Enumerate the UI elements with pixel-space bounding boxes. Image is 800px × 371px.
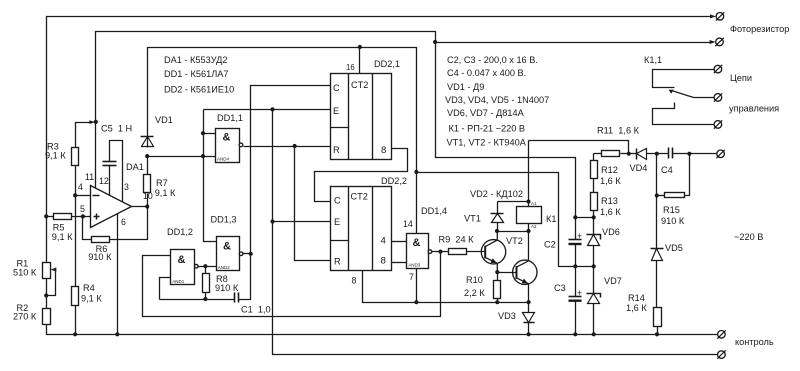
- svg-text:К1 - РП-21 ~220 В: К1 - РП-21 ~220 В: [449, 124, 526, 134]
- svg-text:C1 1,0: C1 1,0: [241, 305, 271, 315]
- svg-text:9,1 К: 9,1 К: [52, 232, 73, 242]
- svg-text:910 К: 910 К: [88, 252, 112, 262]
- svg-text:A2: A2: [531, 224, 537, 229]
- svg-text:VD6: VD6: [602, 227, 620, 237]
- svg-text:VD4: VD4: [630, 163, 648, 173]
- svg-text:VT1: VT1: [464, 214, 481, 224]
- svg-text:AND2: AND2: [218, 265, 231, 270]
- svg-text:К1: К1: [546, 214, 556, 224]
- svg-text:4: 4: [78, 182, 83, 192]
- svg-text:VT2: VT2: [506, 236, 523, 246]
- svg-text:C2: C2: [544, 240, 556, 250]
- svg-text:контроль: контроль: [735, 337, 774, 347]
- svg-text:Цепи: Цепи: [730, 73, 752, 83]
- svg-text:1,6 К: 1,6 К: [600, 207, 621, 217]
- svg-text:AND1: AND1: [172, 279, 185, 284]
- svg-text:VD1 - Д9: VD1 - Д9: [447, 82, 484, 92]
- svg-text:+: +: [577, 288, 582, 298]
- svg-text:910 К: 910 К: [215, 283, 239, 293]
- svg-text:8: 8: [381, 145, 386, 156]
- svg-text:CT2: CT2: [351, 192, 368, 202]
- svg-text:~220 В: ~220 В: [734, 232, 763, 242]
- svg-text:DD1,2: DD1,2: [167, 227, 193, 237]
- svg-text:VD7: VD7: [604, 276, 622, 286]
- svg-text:+: +: [577, 231, 582, 241]
- svg-text:C3: C3: [554, 283, 566, 293]
- svg-text:510 К: 510 К: [13, 268, 37, 278]
- svg-text:2,2 К: 2,2 К: [464, 288, 485, 298]
- svg-text:R15: R15: [663, 205, 680, 215]
- svg-text:DA1: DA1: [126, 162, 144, 172]
- svg-text:C4: C4: [661, 165, 673, 175]
- svg-text:DD1,4: DD1,4: [421, 206, 447, 216]
- svg-text:14: 14: [403, 219, 413, 229]
- svg-text:R12: R12: [601, 165, 618, 175]
- svg-text:270 К: 270 К: [13, 312, 37, 322]
- svg-text:A1: A1: [531, 201, 537, 206]
- svg-text:C: C: [333, 83, 340, 93]
- svg-text:DD2 - К561ИЕ10: DD2 - К561ИЕ10: [164, 85, 234, 95]
- svg-text:R5: R5: [53, 223, 65, 233]
- svg-text:8: 8: [352, 276, 357, 286]
- svg-text:R7: R7: [156, 178, 168, 188]
- svg-text:R9 24 К: R9 24 К: [439, 235, 475, 245]
- svg-text:DD2,1: DD2,1: [374, 59, 400, 69]
- svg-text:VD1: VD1: [155, 115, 173, 125]
- svg-text:DD1 - К561ЛА7: DD1 - К561ЛА7: [164, 69, 229, 79]
- svg-text:&: &: [223, 241, 231, 253]
- svg-text:C: C: [334, 196, 341, 206]
- svg-text:R: R: [334, 257, 341, 267]
- svg-text:16: 16: [346, 63, 355, 72]
- svg-text:&: &: [413, 237, 421, 249]
- svg-text:9,1 К: 9,1 К: [45, 151, 66, 161]
- svg-text:VD2 - КД102: VD2 - КД102: [470, 189, 523, 199]
- svg-text:управления: управления: [729, 104, 779, 114]
- svg-text:R: R: [333, 145, 340, 155]
- svg-text:R10: R10: [466, 275, 483, 285]
- svg-text:C2, C3 - 200,0 x 16 В.: C2, C3 - 200,0 x 16 В.: [447, 55, 538, 65]
- svg-text:10: 10: [143, 191, 153, 201]
- svg-text:R14: R14: [628, 293, 645, 303]
- svg-text:E: E: [333, 106, 339, 116]
- svg-text:R13: R13: [601, 196, 618, 206]
- svg-text:8: 8: [381, 256, 386, 267]
- svg-text:3: 3: [124, 182, 129, 192]
- svg-text:9,1 К: 9,1 К: [155, 188, 176, 198]
- svg-text:VT1, VT2 - КТ940А: VT1, VT2 - КТ940А: [447, 138, 527, 148]
- svg-text:5: 5: [80, 204, 85, 214]
- svg-text:4: 4: [381, 236, 387, 247]
- svg-text:VD6, VD7 - Д814А: VD6, VD7 - Д814А: [447, 108, 525, 118]
- svg-text:1,6 К: 1,6 К: [600, 176, 621, 186]
- svg-text:К1,1: К1,1: [644, 55, 662, 65]
- svg-text:VD3, VD4, VD5 - 1N4007: VD3, VD4, VD5 - 1N4007: [445, 95, 549, 105]
- svg-text:DA1 - К553УД2: DA1 - К553УД2: [164, 55, 227, 65]
- svg-text:DD1,1: DD1,1: [217, 113, 243, 123]
- svg-text:AND3: AND3: [408, 263, 421, 268]
- svg-text:CT2: CT2: [351, 80, 368, 90]
- svg-text:11: 11: [85, 172, 94, 182]
- svg-text:12: 12: [99, 176, 109, 186]
- svg-text:C4 - 0.047 x 400 В.: C4 - 0.047 x 400 В.: [447, 68, 526, 78]
- svg-text:AND4: AND4: [217, 157, 230, 162]
- svg-text:VD5: VD5: [665, 243, 683, 253]
- svg-text:7: 7: [409, 272, 414, 282]
- svg-text:VD3: VD3: [498, 311, 516, 321]
- svg-text:&: &: [223, 132, 231, 144]
- svg-text:1,6 К: 1,6 К: [626, 303, 647, 313]
- svg-text:9,1 К: 9,1 К: [81, 294, 102, 304]
- svg-text:DD2,2: DD2,2: [381, 176, 407, 186]
- svg-text:DD1,3: DD1,3: [211, 215, 237, 225]
- svg-text:E: E: [334, 217, 340, 227]
- svg-text:R4: R4: [83, 283, 95, 293]
- svg-text:6: 6: [121, 217, 126, 227]
- svg-text:C5 1 Н: C5 1 Н: [101, 124, 132, 134]
- svg-text:&: &: [178, 254, 186, 266]
- svg-text:Фоторезистор: Фоторезистор: [730, 24, 789, 34]
- svg-text:910 К: 910 К: [661, 216, 685, 226]
- svg-text:R11 1,6 К: R11 1,6 К: [597, 126, 640, 136]
